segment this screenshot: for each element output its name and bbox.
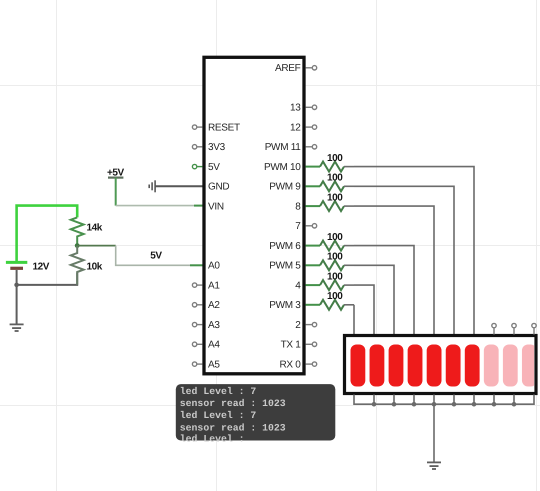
wire PWM3 to LED1	[353, 305, 355, 335]
svg-text:100: 100	[327, 173, 343, 184]
power +5V symbol	[107, 168, 125, 179]
pin 13 stub	[306, 105, 317, 109]
node battery-neg junction	[14, 283, 19, 288]
svg-text:100: 100	[327, 291, 343, 302]
svg-text:13: 13	[290, 103, 301, 114]
pin A3 stub	[192, 322, 202, 326]
node divider junction	[75, 243, 80, 248]
wire 8 to LED5	[354, 206, 434, 334]
svg-text:RESET: RESET	[208, 123, 240, 134]
LED segment 6	[446, 345, 461, 387]
pin LED10 top stub	[532, 323, 536, 334]
wire divider junction to A0	[77, 245, 116, 247]
LED segment 9 (off)	[503, 345, 518, 387]
ground (LED bus)	[427, 462, 441, 469]
svg-text:TX 1: TX 1	[281, 340, 302, 351]
wire junction to ground	[16, 285, 18, 324]
svg-text:7: 7	[295, 221, 301, 232]
svg-text:A0: A0	[208, 261, 220, 272]
cathode bus wire	[354, 395, 534, 405]
ground (left)	[10, 324, 24, 331]
svg-text:A2: A2	[208, 300, 220, 311]
op chip U1 Arduino	[204, 57, 304, 374]
svg-text:A5: A5	[208, 360, 220, 371]
battery negative wire	[16, 270, 18, 285]
svg-text:PWM 10: PWM 10	[264, 162, 301, 173]
resistor R5 100 (PWM5)	[306, 252, 395, 335]
console panel	[176, 384, 335, 440]
wire 4 to LED2	[354, 285, 374, 334]
svg-text:led Level : 7: led Level : 7	[180, 410, 257, 421]
svg-text:PWM 6: PWM 6	[269, 241, 301, 252]
svg-text:14k: 14k	[87, 223, 103, 234]
battery B1 12V	[6, 262, 50, 273]
battery positive wire	[17, 206, 78, 262]
wire bus to ground	[433, 404, 435, 461]
pin 5V stub (green)	[192, 164, 202, 168]
pin RESET stub	[192, 125, 202, 129]
bus junction dots	[372, 402, 517, 407]
LED segment 10 (off)	[522, 345, 537, 387]
pin A2 stub	[192, 303, 202, 307]
svg-text:12V: 12V	[33, 262, 50, 273]
svg-text:4: 4	[295, 281, 301, 292]
svg-text:100: 100	[327, 232, 343, 243]
wire GND pin	[155, 185, 203, 187]
LED segment 2	[370, 345, 385, 387]
svg-text:100: 100	[327, 252, 343, 263]
resistor R6 100 (pin 4)	[306, 272, 375, 335]
svg-text:GND: GND	[208, 182, 229, 193]
svg-text:VIN: VIN	[208, 202, 224, 213]
svg-text:sensor read : 1023: sensor read : 1023	[180, 422, 286, 433]
svg-text:AREF: AREF	[275, 63, 301, 74]
pin LED9 top stub	[512, 323, 516, 334]
pin LED8 top stub	[492, 323, 496, 334]
svg-text:3V3: 3V3	[208, 142, 226, 153]
wire +5V to VIN	[115, 178, 117, 206]
resistor R1 100 (pin 8)	[306, 193, 435, 335]
resistor R7 100 (PWM3)	[306, 291, 355, 334]
resistor R-10k	[71, 246, 103, 285]
left unconnected pin stubs	[192, 125, 202, 366]
LED segment 8 (off)	[484, 345, 499, 387]
svg-text:led Level : 7: led Level : 7	[180, 386, 257, 397]
svg-text:led Level :: led Level :	[180, 434, 245, 445]
resistor R-14k	[71, 217, 103, 245]
svg-text:100: 100	[327, 193, 343, 204]
pin PWM11 stub	[306, 145, 317, 149]
LED segment 4	[408, 345, 423, 387]
pin 2 stub	[306, 322, 317, 326]
wire PWM5 to LED3	[354, 265, 394, 334]
top stubs for unlit LED pins	[492, 323, 536, 334]
pin TX1 stub	[306, 342, 317, 346]
wire 10k bottom to junction	[17, 273, 78, 285]
ground (GND pin, rotated)	[149, 180, 155, 192]
LED segment 3	[389, 345, 404, 387]
pin A5 stub	[192, 362, 202, 366]
pin A1 stub	[192, 283, 202, 287]
LED segment 7	[465, 345, 480, 387]
svg-text:A3: A3	[208, 320, 220, 331]
pin RX0 stub	[306, 362, 317, 366]
pin 7 stub	[306, 224, 317, 228]
svg-text:PWM 3: PWM 3	[269, 300, 301, 311]
svg-text:A1: A1	[208, 281, 220, 292]
left pin labels	[208, 123, 240, 371]
svg-text:100: 100	[327, 153, 343, 164]
LED segment 5	[427, 345, 442, 387]
svg-text:2: 2	[295, 320, 301, 331]
svg-text:8: 8	[295, 202, 301, 213]
svg-text:PWM 11: PWM 11	[265, 142, 302, 153]
svg-text:RX 0: RX 0	[279, 360, 301, 371]
wire PWM9 to LED6	[354, 186, 454, 334]
cathode pin stubs	[374, 395, 514, 405]
svg-text:5V: 5V	[150, 251, 162, 262]
svg-text:100: 100	[327, 272, 343, 283]
right pin labels	[264, 63, 301, 370]
svg-text:5V: 5V	[208, 162, 220, 173]
wire PWM10 to LED7	[354, 167, 474, 335]
right unconnected pin stubs	[306, 66, 317, 367]
resistor R4 100 (PWM6)	[306, 232, 415, 335]
pin 12 stub	[306, 125, 317, 129]
svg-text:10k: 10k	[87, 262, 103, 273]
resistor R2 100 (PWM9)	[306, 173, 455, 335]
LED segment 1	[351, 345, 366, 387]
pin AREF stub	[306, 66, 317, 70]
pin A4 stub	[192, 342, 202, 346]
svg-text:sensor read : 1023: sensor read : 1023	[180, 398, 286, 409]
LED bar graph U2	[345, 336, 537, 394]
resistor R3 100 (PWM10)	[306, 153, 475, 335]
svg-text:PWM 9: PWM 9	[269, 182, 301, 193]
svg-text:A4: A4	[208, 340, 220, 351]
wire PWM6 to LED4	[354, 246, 414, 335]
svg-text:PWM 5: PWM 5	[269, 261, 301, 272]
pin 3V3 stub	[192, 145, 202, 149]
svg-text:12: 12	[290, 123, 301, 134]
